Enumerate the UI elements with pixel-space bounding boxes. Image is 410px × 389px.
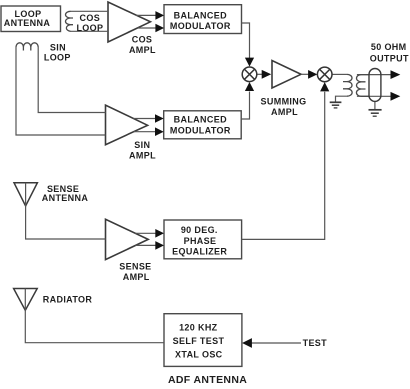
svg-text:MODULATOR: MODULATOR bbox=[170, 126, 231, 136]
svg-text:SELF TEST: SELF TEST bbox=[173, 336, 225, 346]
svg-text:ANTENNA: ANTENNA bbox=[42, 193, 89, 203]
svg-text:BALANCED: BALANCED bbox=[174, 10, 227, 20]
svg-text:TEST: TEST bbox=[303, 338, 328, 348]
svg-text:AMPL: AMPL bbox=[129, 151, 156, 161]
svg-text:MODULATOR: MODULATOR bbox=[170, 21, 231, 31]
svg-text:SIN: SIN bbox=[50, 43, 66, 53]
svg-text:50 OHM: 50 OHM bbox=[371, 42, 407, 52]
svg-text:BALANCED: BALANCED bbox=[174, 115, 227, 125]
svg-text:SIN: SIN bbox=[134, 140, 150, 150]
svg-text:COS: COS bbox=[132, 35, 153, 45]
svg-text:ADF ANTENNA: ADF ANTENNA bbox=[168, 374, 247, 386]
svg-text:ANTENNA: ANTENNA bbox=[4, 18, 51, 28]
svg-text:XTAL OSC: XTAL OSC bbox=[175, 349, 223, 359]
svg-text:AMPL: AMPL bbox=[129, 45, 156, 55]
svg-text:120 KHZ: 120 KHZ bbox=[179, 322, 218, 332]
svg-text:OUTPUT: OUTPUT bbox=[370, 54, 409, 64]
svg-text:AMPL: AMPL bbox=[123, 272, 150, 282]
svg-text:90 DEG.: 90 DEG. bbox=[181, 225, 218, 235]
svg-text:LOOP: LOOP bbox=[76, 23, 103, 33]
svg-text:SUMMING: SUMMING bbox=[261, 96, 307, 106]
svg-text:SENSE: SENSE bbox=[119, 262, 151, 272]
svg-text:LOOP: LOOP bbox=[44, 53, 71, 63]
svg-text:PHASE: PHASE bbox=[184, 236, 217, 246]
svg-text:RADIATOR: RADIATOR bbox=[43, 295, 93, 305]
svg-text:EQUALIZER: EQUALIZER bbox=[172, 247, 227, 257]
svg-text:COS: COS bbox=[80, 13, 101, 23]
svg-text:AMPL: AMPL bbox=[271, 107, 298, 117]
